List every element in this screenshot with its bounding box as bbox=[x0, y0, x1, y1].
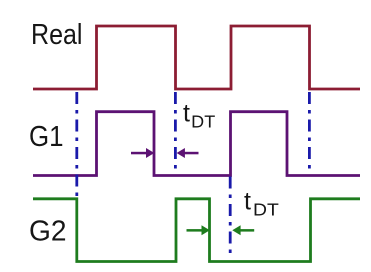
dead-time arrow G1 right (points left to dashed line 2) bbox=[177, 148, 199, 158]
svg-text:DT: DT bbox=[253, 199, 279, 219]
svg-text:G1: G1 bbox=[29, 121, 64, 153]
waveform Real bbox=[33, 26, 360, 89]
label tDT 1 bbox=[183, 100, 215, 132]
svg-text:t: t bbox=[244, 188, 251, 216]
dead-time arrow G2 left (points right to G2 falling edge) bbox=[187, 225, 210, 235]
waveform G2 bbox=[33, 199, 360, 262]
svg-text:G2: G2 bbox=[29, 216, 67, 248]
dead-time arrow G2 right (points left to dashed line 3) bbox=[232, 225, 254, 235]
dead-time arrow G1 left (points right to G1 falling edge) bbox=[131, 148, 154, 158]
svg-text:Real: Real bbox=[31, 19, 83, 51]
svg-text:t: t bbox=[183, 100, 190, 128]
label tDT 2 bbox=[244, 188, 279, 220]
timing dash-dot line 2 (at Real first falling edge, x=175.4) bbox=[174, 92, 177, 169]
timing dash-dot line 1 (at Real first rising edge region, x=76.8) bbox=[75, 92, 78, 198]
svg-text:DT: DT bbox=[191, 111, 215, 131]
timing dash-dot line 4 (at Real second falling edge, x=309.4) bbox=[308, 92, 311, 169]
waveform G1 bbox=[33, 112, 360, 176]
timing dash-dot line 3 (at Real second rising edge, x=230.2) bbox=[229, 177, 232, 254]
